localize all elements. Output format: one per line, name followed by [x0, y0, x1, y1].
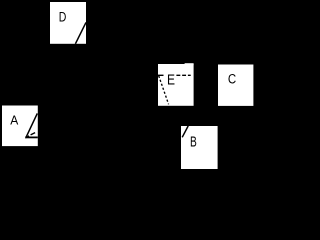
box B — [181, 126, 218, 169]
angle mark — [31, 133, 35, 135]
svg-text:B: B — [190, 134, 197, 151]
line in D — [75, 22, 86, 43]
triangle hypotenuse — [26, 113, 37, 136]
box E — [158, 63, 194, 106]
box A — [2, 106, 38, 147]
top edge step — [185, 63, 194, 65]
vertex wedge — [25, 135, 30, 138]
svg-text:E: E — [167, 73, 175, 89]
box D — [50, 2, 86, 44]
triangle base — [25, 136, 38, 138]
dashed diagonal line — [159, 76, 169, 105]
box C — [218, 65, 253, 106]
svg-text:C: C — [228, 72, 237, 87]
svg-text:D: D — [59, 10, 67, 25]
svg-text:A: A — [10, 113, 18, 128]
dashed horizontal line left segment — [158, 74, 166, 76]
line in B — [182, 126, 188, 137]
dashed horizontal line right segment — [176, 74, 190, 76]
